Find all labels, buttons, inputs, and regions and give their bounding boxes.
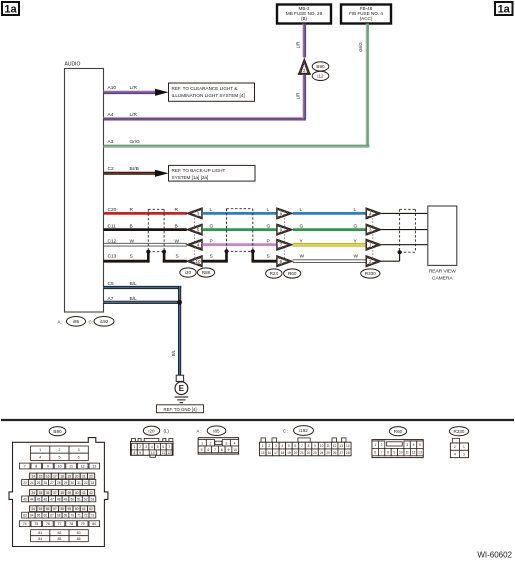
ground point E: [175, 382, 188, 395]
ground hatching: [175, 396, 189, 398]
wire L/R from fuse MB-3 down to connector: [302, 24, 304, 58]
page tag 1a right: [495, 2, 513, 15]
svg-text:31: 31: [77, 481, 81, 485]
connector name R60: [284, 269, 301, 278]
connector pin 2: [366, 256, 382, 267]
svg-text:L/R: L/R: [296, 42, 301, 49]
svg-text:1: 1: [201, 441, 203, 445]
svg-text:C:: C:: [89, 319, 93, 324]
svg-text:58: 58: [60, 507, 64, 511]
svg-text:57: 57: [53, 507, 57, 511]
svg-text:C13: C13: [108, 254, 117, 260]
svg-text:45: 45: [37, 497, 41, 501]
connector pin 3: [366, 224, 382, 235]
svg-text:81: 81: [38, 531, 42, 535]
svg-text:1: 1: [463, 445, 465, 449]
svg-text:33: 33: [91, 481, 95, 485]
svg-text:27: 27: [339, 451, 343, 455]
svg-text:20: 20: [75, 475, 79, 479]
svg-text:55: 55: [39, 507, 43, 511]
svg-text:17: 17: [274, 451, 278, 455]
svg-text:3: 3: [406, 443, 408, 447]
svg-text:12: 12: [333, 444, 337, 448]
svg-text:7: 7: [381, 451, 383, 455]
connector name B90: [312, 62, 329, 71]
svg-text:A :: A :: [197, 429, 202, 434]
svg-text:17: 17: [53, 475, 57, 479]
ref box: clearance light: [169, 83, 255, 101]
svg-text:40: 40: [75, 491, 79, 495]
connector pin 1: [366, 239, 382, 250]
drain riser + junction dot: [163, 252, 166, 263]
svg-text:63: 63: [23, 514, 27, 518]
svg-text:L/R: L/R: [130, 85, 138, 91]
connector pin 5 (B to G): [186, 224, 202, 235]
page tag 1a left: [2, 2, 19, 15]
svg-text:5: 5: [419, 443, 421, 447]
svg-text:64: 64: [30, 514, 34, 518]
connector name i12: [312, 71, 329, 80]
svg-text:1: 1: [39, 448, 41, 452]
svg-text:6: 6: [78, 455, 80, 459]
svg-text:39: 39: [68, 491, 72, 495]
svg-text:WI-60602: WI-60602: [477, 551, 512, 560]
svg-text:2: 2: [454, 445, 456, 449]
fuse FB-48 FIB FUSE NO. 4 (ACC): [341, 5, 391, 24]
svg-text:43: 43: [23, 497, 27, 501]
svg-text:20: 20: [294, 451, 298, 455]
connector name i20: [180, 268, 196, 277]
svg-text:35: 35: [39, 491, 43, 495]
connector name R24: [266, 269, 282, 278]
svg-text:16: 16: [268, 451, 272, 455]
svg-text:23: 23: [313, 451, 317, 455]
svg-text:B/L: B/L: [171, 349, 176, 356]
svg-text:19: 19: [287, 451, 291, 455]
svg-text:12: 12: [81, 465, 85, 469]
svg-text:14: 14: [31, 475, 35, 479]
svg-text:i20: i20: [185, 270, 192, 275]
svg-text:25: 25: [37, 481, 41, 485]
svg-text:4: 4: [151, 445, 153, 449]
svg-text:83: 83: [77, 531, 81, 535]
svg-text:10: 10: [195, 259, 201, 264]
shield (dashed) segment 3: [400, 208, 416, 210]
connector pin 3 (R to L): [186, 208, 202, 219]
svg-text:8: 8: [221, 448, 223, 452]
svg-text:REF. TO GND [4]: REF. TO GND [4]: [163, 407, 196, 412]
shield (dashed) around R/B/W with drain to S, segment 1: [148, 208, 164, 210]
connector pin 8 (L): [277, 208, 293, 219]
svg-text:30: 30: [70, 481, 74, 485]
svg-text:72: 72: [84, 514, 88, 518]
ref box: GND: [157, 405, 204, 413]
svg-text:C :: C :: [283, 429, 289, 434]
svg-text:2: 2: [209, 441, 211, 445]
arrow to ref: [155, 170, 169, 177]
svg-text:49: 49: [64, 497, 68, 501]
svg-text:B90: B90: [53, 429, 62, 434]
svg-text:8: 8: [308, 444, 310, 448]
svg-text:7: 7: [301, 444, 303, 448]
svg-text:15: 15: [261, 451, 265, 455]
svg-text:S: S: [210, 254, 213, 260]
svg-text:21: 21: [300, 451, 304, 455]
svg-text:6: 6: [295, 444, 297, 448]
svg-text:86: 86: [77, 537, 81, 541]
connector R330 ladder line: [372, 215, 374, 259]
svg-text:84: 84: [38, 537, 42, 541]
svg-text:2: 2: [139, 445, 141, 449]
svg-text:53: 53: [91, 497, 95, 501]
svg-text:36: 36: [46, 491, 50, 495]
wire L/R from connector down to A4 row: [302, 75, 304, 117]
svg-text:73: 73: [91, 514, 95, 518]
svg-text:R60: R60: [394, 429, 403, 434]
connector pin 10 (S): [186, 256, 202, 267]
wire Gr/G from fuse FB-48 down to A3 row: [365, 24, 367, 145]
rear view camera unit: [428, 206, 457, 265]
svg-text:Gr/G: Gr/G: [358, 42, 363, 52]
svg-text:4: 4: [234, 441, 236, 445]
svg-text:28: 28: [57, 481, 61, 485]
svg-text:3: 3: [275, 444, 277, 448]
shield drain to camera side: [382, 260, 400, 262]
svg-text:10: 10: [58, 465, 62, 469]
svg-text:S: S: [176, 254, 179, 260]
svg-text:A3: A3: [108, 139, 114, 145]
connector pin 4: [366, 208, 382, 219]
svg-text:71: 71: [77, 514, 81, 518]
svg-text:74: 74: [23, 522, 27, 526]
svg-text:CAMERA: CAMERA: [432, 276, 453, 282]
connector name R330: [361, 269, 380, 278]
svg-text:29: 29: [64, 481, 68, 485]
svg-text:60: 60: [75, 507, 79, 511]
svg-text:9: 9: [228, 448, 230, 452]
svg-text:1a: 1a: [4, 3, 17, 15]
svg-text:R88: R88: [202, 270, 211, 275]
svg-text:28: 28: [346, 451, 350, 455]
svg-text:18: 18: [60, 475, 64, 479]
svg-text:78: 78: [69, 522, 73, 526]
svg-text:26: 26: [44, 481, 48, 485]
svg-text:42: 42: [89, 491, 93, 495]
svg-text:i192: i192: [100, 319, 109, 324]
svg-text:2: 2: [58, 448, 60, 452]
svg-text:(B): (B): [301, 16, 308, 21]
svg-text:65: 65: [37, 514, 41, 518]
svg-text:S: S: [130, 254, 133, 260]
connector i20/R88 ladder line: [194, 215, 196, 259]
svg-text:15: 15: [39, 475, 43, 479]
svg-text:i12: i12: [317, 74, 324, 79]
svg-text:26: 26: [333, 451, 337, 455]
svg-text:Gr/G: Gr/G: [130, 139, 141, 145]
svg-text:6: 6: [374, 451, 376, 455]
svg-text:REF. TO CLEARANCE LIGHT &: REF. TO CLEARANCE LIGHT &: [172, 86, 238, 91]
svg-text:52: 52: [84, 497, 88, 501]
svg-text:REAR VIEW: REAR VIEW: [429, 269, 456, 275]
svg-text:59: 59: [68, 507, 72, 511]
svg-text:i85: i85: [213, 428, 220, 433]
svg-text:W: W: [354, 254, 359, 260]
svg-text:51: 51: [77, 497, 81, 501]
ground terminal square: [176, 375, 183, 381]
connector name R88: [197, 268, 214, 277]
svg-text:(L): (L): [164, 429, 170, 434]
svg-text:3: 3: [78, 448, 80, 452]
svg-text:19: 19: [68, 475, 72, 479]
svg-text:61: 61: [82, 507, 86, 511]
svg-text:8: 8: [133, 451, 135, 455]
svg-text:4: 4: [39, 455, 41, 459]
svg-text:32: 32: [84, 481, 88, 485]
svg-text:79: 79: [81, 522, 85, 526]
svg-text:6: 6: [162, 445, 164, 449]
svg-text:6: 6: [207, 448, 209, 452]
svg-text:3: 3: [225, 441, 227, 445]
svg-text:76: 76: [46, 522, 50, 526]
svg-text:75: 75: [34, 522, 38, 526]
svg-text:W: W: [300, 254, 305, 260]
svg-text:A10: A10: [108, 85, 117, 91]
svg-text:S: S: [267, 254, 270, 260]
svg-text:9: 9: [47, 465, 49, 469]
vertical B/L to ground: [178, 286, 181, 375]
svg-text:56: 56: [46, 507, 50, 511]
svg-text:24: 24: [30, 481, 34, 485]
connector pin 4 (W to P): [186, 239, 202, 250]
connector pinout i20 (L): [143, 426, 159, 435]
svg-text:9: 9: [393, 451, 395, 455]
svg-text:41: 41: [82, 491, 86, 495]
connector pinout R60: [389, 427, 406, 436]
svg-text:67: 67: [50, 514, 54, 518]
svg-text:10: 10: [233, 448, 237, 452]
shield (dashed) segment 2: [227, 208, 253, 210]
svg-text:48: 48: [57, 497, 61, 501]
fuse MB-3 MB FUSE NO. 29 (B): [277, 5, 331, 24]
svg-text:E: E: [179, 384, 185, 393]
svg-text:7: 7: [168, 445, 170, 449]
svg-text:66: 66: [44, 514, 48, 518]
svg-text:11: 11: [69, 465, 73, 469]
svg-text:i20: i20: [148, 428, 155, 433]
svg-text:4: 4: [454, 452, 456, 456]
svg-text:22: 22: [89, 475, 93, 479]
svg-text:AUDIO: AUDIO: [65, 62, 81, 68]
svg-text:R24: R24: [270, 271, 279, 276]
inline connector triangle (B90/i12) pin 2: [299, 59, 310, 74]
svg-text:80: 80: [92, 522, 96, 526]
svg-text:13: 13: [92, 465, 96, 469]
corner join: [302, 117, 304, 119]
svg-text:4: 4: [281, 444, 283, 448]
svg-text:5: 5: [58, 455, 60, 459]
svg-text:5: 5: [288, 444, 290, 448]
svg-text:5: 5: [157, 445, 159, 449]
svg-text:C2: C2: [108, 166, 114, 172]
svg-text:54: 54: [31, 507, 35, 511]
svg-text:9: 9: [139, 451, 141, 455]
svg-text:46: 46: [44, 497, 48, 501]
svg-text:85: 85: [57, 537, 61, 541]
svg-text:i85: i85: [73, 319, 80, 324]
svg-text:34: 34: [31, 491, 35, 495]
svg-text:25: 25: [326, 451, 330, 455]
svg-text:Br/B: Br/B: [130, 166, 139, 172]
svg-text:4: 4: [413, 443, 415, 447]
svg-text:SYSTEM [1a] [2a]: SYSTEM [1a] [2a]: [172, 175, 209, 180]
svg-text:(ACC): (ACC): [360, 16, 373, 21]
svg-text:5: 5: [201, 448, 203, 452]
svg-text:38: 38: [60, 491, 64, 495]
connector pinout B90: [49, 427, 66, 436]
svg-text:77: 77: [58, 522, 62, 526]
drain riser + junction dot: [147, 252, 150, 263]
svg-text:10: 10: [399, 451, 403, 455]
svg-text:12: 12: [167, 451, 171, 455]
svg-text:R60: R60: [288, 271, 297, 276]
svg-text:L/R: L/R: [296, 93, 301, 100]
svg-text:7: 7: [24, 465, 26, 469]
svg-text:11: 11: [326, 444, 330, 448]
svg-text:24: 24: [320, 451, 324, 455]
svg-text:R330: R330: [454, 429, 465, 434]
svg-text:37: 37: [53, 491, 57, 495]
svg-text:R330: R330: [365, 271, 376, 276]
arrow to ref: [155, 89, 169, 96]
svg-text:8: 8: [35, 465, 37, 469]
svg-text:1: 1: [262, 444, 264, 448]
svg-text:12: 12: [412, 451, 416, 455]
connector pin 9 (G): [277, 224, 293, 235]
svg-text:1a: 1a: [498, 3, 511, 15]
svg-text:13: 13: [339, 444, 343, 448]
connector R24/R60 ladder line: [284, 215, 286, 259]
svg-text:1: 1: [133, 445, 135, 449]
svg-text:ILLUMINATION LIGHT SYSTEM [4]: ILLUMINATION LIGHT SYSTEM [4]: [172, 93, 245, 98]
svg-text:11: 11: [162, 451, 166, 455]
svg-text:69: 69: [64, 514, 68, 518]
svg-text:9: 9: [314, 444, 316, 448]
svg-text:70: 70: [70, 514, 74, 518]
svg-text:62: 62: [89, 507, 93, 511]
svg-text:18: 18: [281, 451, 285, 455]
svg-text:27: 27: [50, 481, 54, 485]
svg-text:10: 10: [320, 444, 324, 448]
connector pin 7 (P to Y): [277, 239, 293, 250]
svg-text:14: 14: [346, 444, 350, 448]
svg-text:50: 50: [70, 497, 74, 501]
connector pinout R330: [449, 427, 468, 436]
svg-text:3: 3: [145, 445, 147, 449]
connector pin 6 (S to W): [277, 256, 293, 267]
ref box: back-up light: [169, 165, 256, 181]
svg-text:7: 7: [214, 448, 216, 452]
svg-text:1: 1: [374, 443, 376, 447]
svg-text:23: 23: [23, 481, 27, 485]
svg-text:2: 2: [381, 443, 383, 447]
svg-text:22: 22: [307, 451, 311, 455]
svg-text:3: 3: [463, 452, 465, 456]
section separator line: [1, 419, 514, 421]
svg-text:10: 10: [151, 451, 155, 455]
svg-text:82: 82: [57, 531, 61, 535]
svg-text:68: 68: [57, 514, 61, 518]
svg-text:A:: A:: [58, 319, 62, 324]
svg-text:2: 2: [268, 444, 270, 448]
svg-text:B90: B90: [316, 64, 325, 69]
svg-text:8: 8: [387, 451, 389, 455]
svg-text:47: 47: [50, 497, 54, 501]
svg-text:13: 13: [418, 451, 422, 455]
svg-text:44: 44: [30, 497, 34, 501]
svg-text:11: 11: [405, 451, 409, 455]
svg-text:REF. TO BACK-UP LIGHT: REF. TO BACK-UP LIGHT: [172, 168, 226, 173]
svg-text:21: 21: [82, 475, 86, 479]
svg-text:i192: i192: [299, 428, 308, 433]
svg-text:16: 16: [46, 475, 50, 479]
camera wires into unit: [382, 212, 428, 214]
